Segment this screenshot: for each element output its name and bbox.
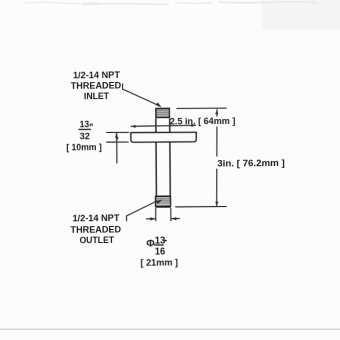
leader line to inlet bbox=[122, 83, 159, 106]
leader line to outlet bbox=[126, 201, 157, 221]
svg-text:OUTLET: OUTLET bbox=[79, 234, 114, 245]
svg-text:INLET: INLET bbox=[84, 90, 109, 101]
flange escutcheon plate bbox=[131, 132, 196, 142]
svg-text:3in. [ 76.2mm ]: 3in. [ 76.2mm ] bbox=[217, 158, 285, 169]
label text: 1/2-14 NPT THREADED OUTLET bbox=[70, 212, 121, 245]
svg-text:13: 13 bbox=[80, 119, 90, 129]
dimension phi 13/16 outlet diameter: extension lines, arrows bbox=[146, 208, 180, 222]
faint page shadow top right corner bbox=[262, 0, 340, 30]
dimension text 13/32 inch fraction bbox=[78, 119, 92, 141]
label text: 1/2-14 NPT THREADED INLET bbox=[71, 69, 122, 101]
svg-text:1/2-14 NPT: 1/2-14 NPT bbox=[72, 212, 119, 223]
faint horizontal scan line near bottom bbox=[0, 329, 340, 330]
threaded inlet fitting (1/2-14 NPT inlet) bbox=[156, 108, 169, 117]
faint scan smudges along top edge bbox=[25, 2, 318, 5]
dimension text phi 13/16 inch bbox=[146, 235, 167, 257]
threaded outlet fitting (1/2-14 NPT outlet) bbox=[155, 196, 171, 207]
wire pipe body right edge bbox=[169, 118, 172, 195]
dimension 3 in overall height: extension lines, dimension line, arrows bbox=[175, 108, 228, 207]
svg-text:[ 10mm ]: [ 10mm ] bbox=[66, 141, 102, 152]
leader arrowhead at inlet bbox=[156, 102, 162, 107]
svg-text:16: 16 bbox=[155, 246, 166, 257]
leader arrowhead at outlet bbox=[156, 200, 162, 204]
svg-text:32: 32 bbox=[80, 130, 90, 141]
wire pipe body left edge bbox=[155, 118, 158, 195]
dimension line 2.5 in flange width with arrowheads bbox=[131, 124, 197, 128]
svg-text:2.5 in. [ 64mm ]: 2.5 in. [ 64mm ] bbox=[170, 116, 236, 127]
dimension 13/32 flange thickness: extension lines, arrows bbox=[106, 132, 129, 163]
svg-text:[ 21mm ]: [ 21mm ] bbox=[140, 258, 178, 268]
